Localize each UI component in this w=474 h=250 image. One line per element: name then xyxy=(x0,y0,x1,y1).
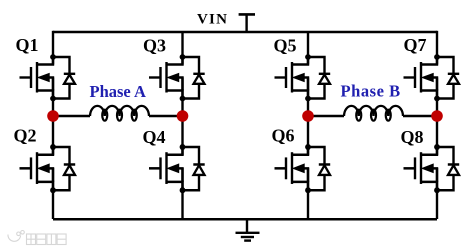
transistor Q7 xyxy=(404,54,460,101)
transistor Q8 xyxy=(404,144,460,193)
wire: leg4 Q7 source to node B right xyxy=(436,78,438,156)
svg-text:Q2: Q2 xyxy=(14,126,37,146)
svg-text:Phase A: Phase A xyxy=(90,82,146,101)
wire: leg3 Q6 source to bottom rail xyxy=(307,168,309,219)
svg-text:Q1: Q1 xyxy=(16,35,39,55)
wire: leg2 Q4 source to bottom rail xyxy=(181,168,183,219)
ground stub xyxy=(246,219,248,233)
transistor Q6 xyxy=(275,144,331,193)
transistor Q5 xyxy=(275,54,331,101)
svg-text:Q5: Q5 xyxy=(274,36,297,56)
node A right (red phase node) xyxy=(177,110,189,122)
wire: node A to inductor LA left xyxy=(53,115,90,117)
transistor Q2 xyxy=(20,144,76,193)
svg-text:Q3: Q3 xyxy=(143,36,166,56)
svg-text:VIN: VIN xyxy=(197,12,228,28)
transistor Q4 xyxy=(149,144,205,193)
transistor Q1 xyxy=(20,54,76,101)
wire: leg1 rail to Q1 drain xyxy=(52,31,54,65)
wire: inductor LA right to node A2 xyxy=(149,115,183,117)
wire: leg2 rail to Q3 drain xyxy=(181,32,183,65)
svg-text:Q8: Q8 xyxy=(401,127,424,147)
VIN terminal stub xyxy=(245,14,247,32)
wire: leg4 rail to Q7 drain xyxy=(436,31,438,65)
svg-text:Q6: Q6 xyxy=(272,126,295,146)
node A left (red phase node) xyxy=(47,110,59,122)
wire: inductor LB right to node B2 xyxy=(403,115,437,117)
wire: leg3 rail to Q5 drain xyxy=(307,32,309,65)
wire: node B to inductor LB left xyxy=(308,115,344,117)
wire: leg4 Q8 source to bottom rail xyxy=(436,168,438,219)
watermark logo xyxy=(8,231,66,245)
svg-text:Q7: Q7 xyxy=(404,35,427,55)
svg-text:Q4: Q4 xyxy=(143,127,166,147)
VIN top rail wire xyxy=(53,31,437,34)
VIN terminal bar xyxy=(239,13,255,16)
wire: leg1 Q2 source to bottom rail xyxy=(52,168,54,219)
wire: leg2 Q3 source to node A right xyxy=(181,78,183,156)
wire: leg1 Q1 source to node A left xyxy=(52,78,54,156)
transistor Q3 xyxy=(149,54,205,101)
node B right (red phase node) xyxy=(431,110,443,122)
wire: leg3 Q5 source to node B left xyxy=(307,78,309,156)
svg-text:Phase B: Phase B xyxy=(341,82,401,101)
node B left (red phase node) xyxy=(302,110,314,122)
ground xyxy=(236,233,260,241)
inductor LB (Phase B) xyxy=(344,106,403,121)
inductor LA (Phase A) xyxy=(90,106,149,121)
bottom ground rail wire xyxy=(53,218,437,221)
